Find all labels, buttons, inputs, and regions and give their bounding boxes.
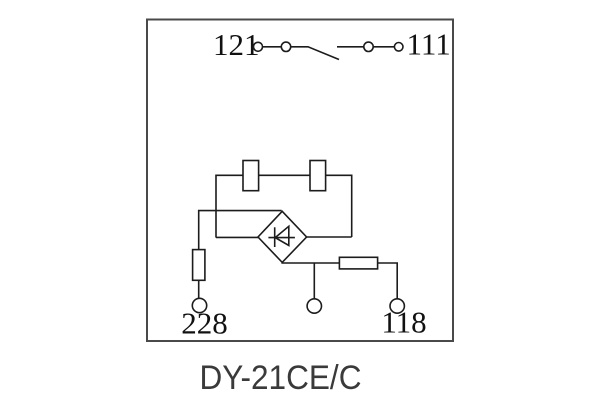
svg-text:228: 228 xyxy=(181,306,228,341)
terminal circle 121 xyxy=(254,42,263,51)
svg-text:121: 121 xyxy=(213,27,260,62)
terminal circle 118 xyxy=(390,299,404,313)
wire xyxy=(259,174,310,176)
svg-text:DY-21CE/C: DY-21CE/C xyxy=(200,359,362,397)
svg-text:111: 111 xyxy=(407,27,451,62)
terminal circle 111 xyxy=(394,43,403,52)
switch blade SW1 xyxy=(291,47,339,60)
wire top rail xyxy=(216,175,243,237)
wire to diamond top xyxy=(199,211,282,250)
wire from diamond bottom xyxy=(282,261,339,264)
wire xyxy=(263,46,282,48)
wire xyxy=(337,46,364,48)
wire middle branch xyxy=(313,263,315,299)
terminal circle middle xyxy=(307,299,321,313)
resistor R3 xyxy=(193,250,205,281)
wire xyxy=(326,175,352,237)
wire xyxy=(198,280,200,298)
wire to diamond left xyxy=(216,236,258,238)
wire xyxy=(378,263,398,299)
rectifier diamond U1 xyxy=(258,211,307,262)
contact circle right xyxy=(364,42,373,51)
resistor R4 xyxy=(339,257,377,269)
wire xyxy=(373,46,394,48)
terminal circle 228 xyxy=(192,298,206,312)
resistor R2 xyxy=(310,161,326,191)
diode D1 inside xyxy=(268,226,295,247)
resistor R1 xyxy=(243,161,259,191)
contact circle left pivot xyxy=(281,42,290,51)
wire diamond right to rail xyxy=(307,236,352,238)
svg-text:118: 118 xyxy=(381,305,426,340)
